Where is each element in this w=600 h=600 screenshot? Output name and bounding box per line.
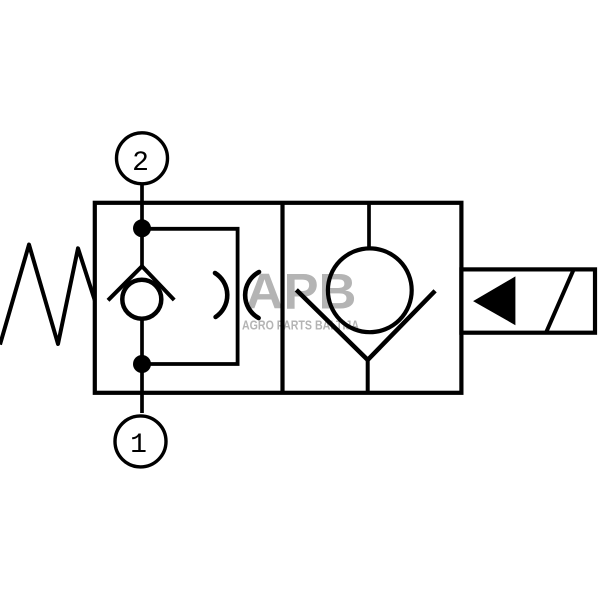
wire seat to bottom xyxy=(366,360,370,393)
orifice right arc xyxy=(245,272,259,318)
port 2 circle xyxy=(117,133,168,184)
check valve ball xyxy=(122,280,161,319)
valve body box xyxy=(95,203,462,393)
wire ball to port 1 xyxy=(140,319,144,413)
pilot line loop xyxy=(142,229,238,364)
node bottom junction dot xyxy=(133,355,151,373)
check valve seat chevron xyxy=(108,266,174,300)
orifice left arc xyxy=(215,273,227,317)
spring xyxy=(0,245,95,345)
svg-text:2: 2 xyxy=(132,148,149,179)
poppet seat V xyxy=(296,290,435,360)
node top junction dot xyxy=(133,219,151,237)
solenoid arrow triangle xyxy=(473,276,515,325)
wire top stub right position xyxy=(367,203,371,247)
poppet ball right position xyxy=(328,248,412,332)
solenoid box xyxy=(461,269,595,332)
position divider xyxy=(280,203,284,393)
solenoid diagonal xyxy=(546,270,573,332)
wire port2 to body xyxy=(140,185,144,267)
svg-text:1: 1 xyxy=(130,430,147,461)
port 1 circle xyxy=(115,416,166,467)
